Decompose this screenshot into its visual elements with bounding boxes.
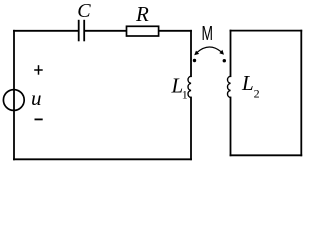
wire right loop top — [231, 30, 302, 32]
wire R to top-right corner — [159, 30, 191, 32]
wire left side — [13, 31, 15, 160]
label minus — [35, 118, 43, 120]
inductor L1 — [188, 76, 191, 97]
wire C to R — [85, 30, 127, 32]
wire bottom (left loop) — [14, 158, 191, 160]
svg-text:M: M — [202, 22, 214, 45]
label L1 — [171, 73, 188, 101]
wire right side upper (left loop) — [190, 31, 192, 76]
svg-text:L: L — [241, 71, 254, 95]
wire right loop bottom — [231, 154, 302, 156]
label + — [34, 65, 43, 75]
wire top-left (node from source to C) — [14, 30, 78, 32]
coupling dot right — [223, 59, 226, 62]
svg-text:2: 2 — [254, 87, 260, 101]
capacitor C — [79, 20, 85, 42]
svg-text:C: C — [77, 0, 91, 22]
svg-text:1: 1 — [182, 88, 188, 102]
inductor L2 — [227, 76, 230, 97]
wire right loop right side — [300, 31, 302, 156]
wire right side lower (left loop) — [190, 98, 192, 160]
svg-text:R: R — [135, 2, 149, 26]
resistor R — [127, 26, 159, 36]
coupling dot left — [193, 59, 196, 62]
label L2 — [241, 71, 260, 100]
svg-text:u: u — [31, 86, 42, 110]
wire right loop left lower — [230, 98, 232, 156]
mutual coupling arrow M — [194, 47, 224, 55]
voltage source u — [3, 90, 24, 111]
wire right loop left upper — [230, 31, 232, 77]
